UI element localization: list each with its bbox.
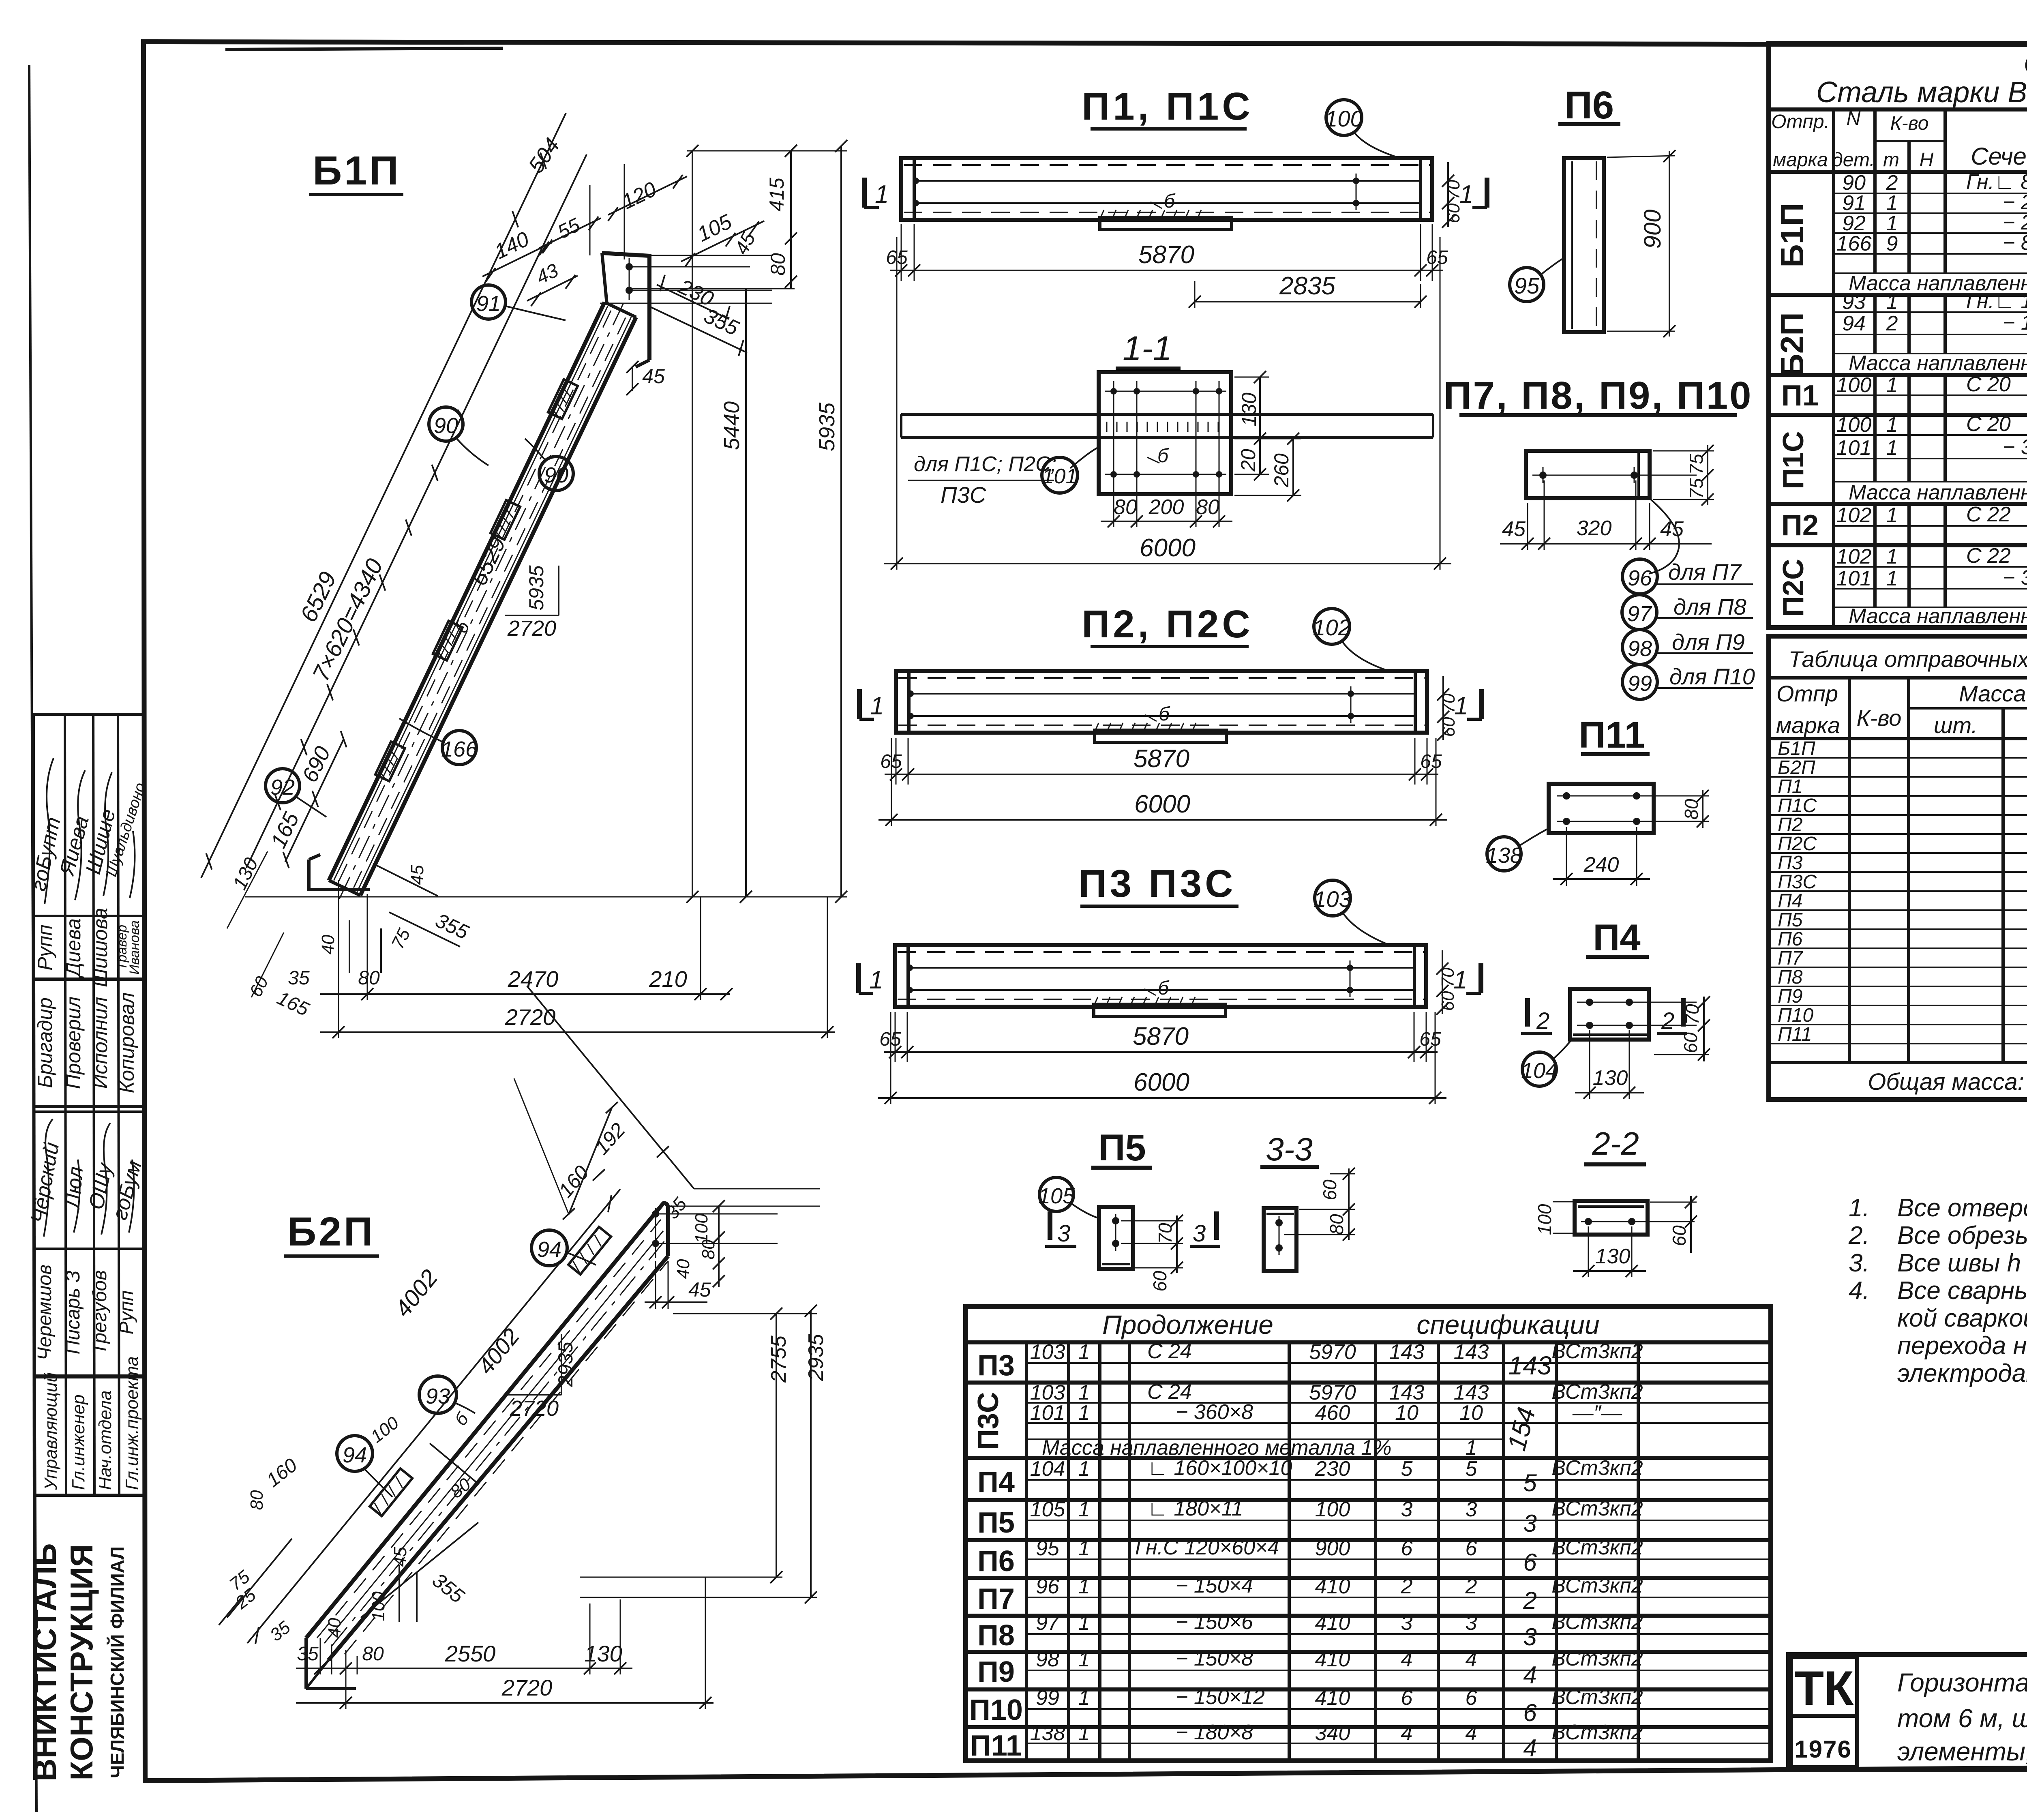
svg-text:166: 166 bbox=[441, 737, 478, 761]
svg-text:П9: П9 bbox=[1778, 986, 1802, 1007]
svg-text:80: 80 bbox=[1196, 495, 1219, 519]
svg-text:2: 2 bbox=[1661, 1008, 1674, 1034]
П1 dimension 6000 bbox=[884, 237, 1451, 570]
svg-text:Отпр: Отпр bbox=[1776, 681, 1838, 706]
svg-text:ВСт3кп2: ВСт3кп2 bbox=[1551, 1456, 1643, 1480]
dim 504 extension bbox=[522, 113, 566, 205]
svg-text:410: 410 bbox=[1315, 1611, 1350, 1635]
svg-text:1976: 1976 bbox=[1794, 1736, 1851, 1763]
svg-text:перехода на ручную сварку, сва: перехода на ручную сварку, сварку произв… bbox=[1897, 1332, 2027, 1360]
svg-text:Общая масса:: Общая масса: bbox=[1868, 1069, 2024, 1095]
callout 103 bbox=[1315, 880, 1350, 916]
svg-text:П6: П6 bbox=[1778, 928, 1803, 950]
svg-text:2755: 2755 bbox=[767, 1335, 791, 1383]
svg-text:ВНИКТИСТАЛЬ: ВНИКТИСТАЛЬ bbox=[27, 1543, 63, 1781]
svg-text:− 180×8: − 180×8 bbox=[2003, 311, 2027, 334]
svg-text:6000: 6000 bbox=[1133, 1068, 1189, 1096]
svg-text:П5: П5 bbox=[1778, 909, 1803, 931]
svg-text:70: 70 bbox=[1438, 967, 1458, 987]
svg-text:ВСт3кп2: ВСт3кп2 bbox=[1551, 1497, 1643, 1520]
svg-text:4.: 4. bbox=[1849, 1277, 1870, 1305]
svg-text:П5: П5 bbox=[1098, 1127, 1146, 1168]
svg-text:260: 260 bbox=[1270, 453, 1293, 488]
section 3-3 bbox=[1260, 1131, 1355, 1271]
svg-text:80: 80 bbox=[767, 253, 789, 276]
svg-text:Диева: Диева bbox=[62, 918, 85, 979]
svg-text:2935: 2935 bbox=[554, 1342, 577, 1387]
Б1П callout 90 right bbox=[525, 439, 573, 491]
svg-text:для П7: для П7 bbox=[1668, 559, 1742, 585]
svg-text:45: 45 bbox=[642, 365, 665, 388]
svg-text:99: 99 bbox=[1036, 1686, 1059, 1710]
svg-text:П3: П3 bbox=[1778, 852, 1803, 874]
svg-text:9: 9 bbox=[1886, 232, 1898, 255]
svg-text:35: 35 bbox=[297, 1643, 319, 1665]
svg-text:101: 101 bbox=[1836, 436, 1872, 460]
long dim 6529 bbox=[201, 205, 522, 878]
svg-text:130: 130 bbox=[1238, 392, 1260, 427]
1-1 bottom dims 80 200 80 bbox=[1101, 487, 1232, 527]
svg-text:91: 91 bbox=[476, 292, 501, 316]
svg-text:138: 138 bbox=[1030, 1721, 1065, 1745]
svg-text:143: 143 bbox=[1454, 1340, 1489, 1364]
member Б2П title bbox=[284, 1209, 379, 1256]
stamp signatures row 1 bbox=[27, 780, 149, 893]
svg-text:143: 143 bbox=[1389, 1340, 1425, 1364]
beam П1 drawing bbox=[901, 158, 1432, 229]
svg-text:80: 80 bbox=[1114, 495, 1137, 519]
Б1П top dimension cluster bbox=[482, 134, 797, 395]
svg-text:96: 96 bbox=[1628, 566, 1652, 590]
svg-text:1: 1 bbox=[1886, 436, 1898, 460]
svg-text:для П8: для П8 bbox=[1673, 594, 1746, 620]
svg-text:65: 65 bbox=[1419, 1029, 1441, 1050]
svg-text:Иванова: Иванова bbox=[127, 920, 142, 975]
svg-text:3: 3 bbox=[1466, 1498, 1477, 1521]
svg-text:С 20: С 20 bbox=[1966, 412, 2011, 436]
svg-text:320: 320 bbox=[1577, 517, 1612, 540]
section 1-1 title bbox=[1116, 329, 1181, 368]
svg-text:ВСт3кп2: ВСт3кп2 bbox=[1551, 1685, 1643, 1709]
svg-text:1: 1 bbox=[1078, 1648, 1090, 1671]
svg-text:N: N bbox=[1847, 108, 1861, 129]
svg-text:94: 94 bbox=[1842, 312, 1866, 335]
svg-text:Управляющий: Управляющий bbox=[41, 1372, 61, 1490]
svg-text:6: 6 bbox=[1466, 1537, 1477, 1560]
svg-text:Все отверстия d = 23.: Все отверстия d = 23. bbox=[1897, 1194, 2027, 1222]
svg-text:2: 2 bbox=[1401, 1575, 1413, 1598]
Б1П callout 92 bbox=[266, 769, 326, 817]
svg-text:70: 70 bbox=[1444, 180, 1463, 199]
svg-text:− 360×8: − 360×8 bbox=[2003, 566, 2027, 590]
svg-text:4: 4 bbox=[1401, 1648, 1413, 1671]
svg-text:ВСт3кп2: ВСт3кп2 bbox=[1551, 1574, 1643, 1597]
svg-text:6: 6 bbox=[1466, 1686, 1477, 1710]
svg-text:Горизонтальные связи, прогоны: Горизонтальные связи, прогоны проле− bbox=[1897, 1668, 2027, 1697]
svg-text:410: 410 bbox=[1315, 1648, 1350, 1671]
svg-text:166: 166 bbox=[1836, 232, 1872, 255]
svg-text:элементы, монтажные прокладки.: элементы, монтажные прокладки. bbox=[1897, 1737, 2027, 1766]
continuation table marks bbox=[969, 1349, 1023, 1762]
svg-text:105: 105 bbox=[1030, 1498, 1066, 1521]
svg-text:100: 100 bbox=[1836, 373, 1872, 397]
для П1С П2С П3С note bbox=[908, 448, 1097, 508]
svg-text:Все сварные швы выполнять полу: Все сварные швы выполнять полуавтоматиче… bbox=[1897, 1277, 2027, 1305]
svg-text:410: 410 bbox=[1315, 1686, 1350, 1710]
svg-text:102: 102 bbox=[1313, 615, 1350, 640]
shipping marks + welds table bbox=[1769, 636, 2027, 1100]
continuation specification table bbox=[966, 1307, 1771, 1761]
Б2П right extension lines 2755 2935 bbox=[580, 1200, 828, 1603]
section flags П2 bbox=[859, 689, 1482, 720]
svg-text:1: 1 bbox=[1078, 1611, 1090, 1635]
part П6 bbox=[1510, 84, 1676, 337]
svg-text:5970: 5970 bbox=[1309, 1340, 1356, 1364]
svg-text:5870: 5870 bbox=[1138, 241, 1194, 269]
svg-text:35: 35 bbox=[288, 967, 310, 989]
svg-text:45: 45 bbox=[1660, 517, 1684, 541]
svg-text:П2: П2 bbox=[1778, 814, 1802, 836]
svg-text:4: 4 bbox=[1466, 1648, 1477, 1671]
svg-text:Нач.отдела: Нач.отдела bbox=[95, 1390, 115, 1490]
П3 dimension 6000 bbox=[878, 1012, 1446, 1104]
svg-text:20: 20 bbox=[1237, 449, 1260, 472]
svg-text:97: 97 bbox=[1627, 602, 1652, 626]
notes block bbox=[1848, 1148, 2027, 1387]
svg-text:марка: марка bbox=[1776, 712, 1840, 738]
title block bbox=[1789, 1655, 2027, 1770]
svg-text:4: 4 bbox=[1466, 1721, 1477, 1745]
svg-text:Сталь марки ВСт3кп2 по ГОСТ 3: Сталь марки ВСт3кп2 по ГОСТ 380-71.* bbox=[1816, 76, 2027, 109]
svg-text:10: 10 bbox=[1459, 1401, 1483, 1425]
svg-text:ВСт3кп2: ВСт3кп2 bbox=[1551, 1380, 1643, 1404]
svg-text:4: 4 bbox=[1523, 1661, 1536, 1689]
svg-text:Исполнил: Исполнил bbox=[89, 997, 111, 1089]
svg-text:1: 1 bbox=[1886, 290, 1898, 314]
svg-text:98: 98 bbox=[1628, 637, 1652, 661]
part П4 bbox=[1521, 917, 1710, 1099]
svg-text:5935: 5935 bbox=[815, 402, 839, 451]
svg-text:1: 1 bbox=[869, 966, 883, 994]
svg-text:ВСт3кп2: ВСт3кп2 bbox=[1551, 1647, 1643, 1670]
svg-text:60: 60 bbox=[1319, 1179, 1340, 1200]
svg-text:ЧЕЛЯБИНСКИЙ ФИЛИАЛ: ЧЕЛЯБИНСКИЙ ФИЛИАЛ bbox=[107, 1546, 128, 1778]
specification title bbox=[1816, 48, 2027, 109]
svg-text:Масса наплавленного металла 1%: Масса наплавленного металла 1% bbox=[1849, 352, 2027, 375]
svg-text:103: 103 bbox=[1313, 886, 1351, 912]
svg-text:П7: П7 bbox=[977, 1583, 1015, 1615]
Б2П callout 93 bbox=[419, 1376, 475, 1413]
section flags П3 bbox=[859, 963, 1481, 994]
svg-text:2: 2 bbox=[1465, 1575, 1477, 1598]
svg-text:1.: 1. bbox=[1849, 1194, 1870, 1222]
svg-text:П4: П4 bbox=[977, 1466, 1015, 1498]
svg-text:80: 80 bbox=[247, 1490, 267, 1510]
svg-text:3: 3 bbox=[1057, 1220, 1070, 1247]
svg-text:75: 75 bbox=[1686, 478, 1707, 499]
svg-text:2: 2 bbox=[1886, 312, 1898, 335]
Б1П callout 90 left bbox=[429, 407, 489, 465]
П1 dimension 2835 bbox=[1189, 272, 1427, 308]
svg-text:кой сваркой в среде углекислог: кой сваркой в среде углекислого газа; в … bbox=[1897, 1304, 2027, 1332]
svg-text:130: 130 bbox=[584, 1641, 622, 1666]
svg-text:Все обрезы 50,: Все обрезы 50, bbox=[1897, 1222, 2027, 1250]
stamp signatures row 2 bbox=[26, 1140, 146, 1225]
svg-text:102: 102 bbox=[1836, 545, 1872, 568]
svg-text:130: 130 bbox=[1595, 1245, 1631, 1268]
svg-text:П6: П6 bbox=[1564, 84, 1614, 127]
svg-text:Продолжение: Продолжение bbox=[1102, 1310, 1273, 1340]
svg-text:210: 210 bbox=[649, 966, 687, 992]
Б2П top dimension cluster bbox=[514, 986, 820, 1279]
svg-text:Сечение: Сечение bbox=[1971, 143, 2027, 170]
svg-text:6000: 6000 bbox=[1140, 534, 1196, 562]
svg-text:П3С: П3С bbox=[1778, 871, 1817, 893]
svg-text:200: 200 bbox=[1148, 495, 1184, 519]
svg-text:П3 П3С: П3 П3С bbox=[1079, 862, 1236, 905]
svg-text:т: т bbox=[1883, 149, 1899, 171]
svg-text:Проверил: Проверил bbox=[62, 997, 85, 1089]
Б2П top end bolts and dims bbox=[645, 1206, 820, 1309]
svg-text:Копировал: Копировал bbox=[116, 993, 138, 1093]
Б1П callout 166 bbox=[399, 718, 478, 765]
svg-text:− 180×8: − 180×8 bbox=[1176, 1721, 1253, 1744]
svg-text:П2С: П2С bbox=[1778, 833, 1817, 855]
svg-text:− 150×12: − 150×12 bbox=[1176, 1685, 1265, 1709]
dim 7x620=4340 bbox=[246, 154, 587, 868]
Б1П callout 91 bbox=[471, 285, 566, 320]
svg-text:− 80×8: − 80×8 bbox=[2003, 231, 2027, 255]
svg-text:80: 80 bbox=[1326, 1214, 1347, 1235]
svg-text:П7: П7 bbox=[1778, 948, 1804, 969]
svg-text:40: 40 bbox=[318, 935, 338, 954]
svg-text:2935: 2935 bbox=[804, 1333, 828, 1381]
svg-text:6000: 6000 bbox=[1134, 790, 1190, 818]
specification table frame bbox=[1769, 43, 2027, 628]
svg-text:40: 40 bbox=[673, 1259, 693, 1279]
marks table headers bbox=[1776, 646, 2027, 741]
svg-text:70: 70 bbox=[1155, 1223, 1176, 1244]
specification header texts bbox=[1771, 108, 2027, 181]
marks table rows bbox=[1778, 738, 2027, 1045]
svg-text:П2С: П2С bbox=[1777, 559, 1810, 617]
svg-text:2835: 2835 bbox=[1279, 272, 1335, 300]
svg-text:900: 900 bbox=[1639, 210, 1666, 249]
svg-text:60: 60 bbox=[1669, 1225, 1690, 1246]
svg-text:С 20: С 20 bbox=[1966, 373, 2011, 396]
svg-text:3-3: 3-3 bbox=[1266, 1131, 1313, 1167]
Б2П slope triangle 2935/2720 bbox=[505, 1334, 577, 1421]
П3 dimension 5870 bbox=[879, 950, 1458, 1062]
svg-text:75: 75 bbox=[1686, 454, 1707, 475]
svg-text:Гн.С 120×60×4: Гн.С 120×60×4 bbox=[1135, 1536, 1279, 1559]
svg-text:95: 95 bbox=[1036, 1537, 1060, 1560]
svg-text:Люл: Люл bbox=[60, 1166, 88, 1211]
svg-text:6: 6 bbox=[1523, 1699, 1537, 1726]
svg-text:2: 2 bbox=[1523, 1587, 1536, 1614]
svg-text:1: 1 bbox=[1886, 504, 1898, 527]
Б1П right extension lines 5440 5935 bbox=[245, 140, 847, 903]
Б1П top hook bbox=[602, 253, 649, 367]
svg-text:5935: 5935 bbox=[525, 565, 548, 610]
svg-text:5: 5 bbox=[1523, 1469, 1537, 1496]
svg-text:230: 230 bbox=[1315, 1457, 1350, 1481]
svg-text:Гл.инж.проекта: Гл.инж.проекта bbox=[122, 1356, 142, 1490]
svg-text:2: 2 bbox=[1536, 1008, 1549, 1034]
svg-text:Б1П: Б1П bbox=[1774, 203, 1810, 268]
svg-text:для П1С; П2С;: для П1С; П2С; bbox=[914, 452, 1056, 476]
svg-text:96: 96 bbox=[1036, 1575, 1059, 1598]
vertical column lines bbox=[1832, 109, 1835, 628]
svg-text:шт.: шт. bbox=[1934, 712, 1978, 738]
svg-text:П2, П2С: П2, П2С bbox=[1082, 602, 1253, 646]
svg-text:1: 1 bbox=[1078, 1340, 1090, 1364]
member Б1П band (rotated) bbox=[176, 101, 703, 943]
svg-text:2.: 2. bbox=[1848, 1222, 1870, 1250]
svg-text:1-1: 1-1 bbox=[1123, 329, 1172, 367]
svg-text:2470: 2470 bbox=[508, 966, 559, 992]
svg-text:60: 60 bbox=[1680, 1032, 1701, 1053]
svg-text:3: 3 bbox=[1401, 1611, 1413, 1635]
svg-text:ВСт3кп2: ВСт3кп2 bbox=[1551, 1536, 1643, 1559]
svg-text:− 150×8: − 150×8 bbox=[1176, 1647, 1253, 1670]
continuation table title bbox=[1102, 1310, 1600, 1340]
svg-text:П3С: П3С bbox=[941, 482, 986, 508]
svg-text:1: 1 bbox=[1886, 373, 1898, 397]
svg-text:143: 143 bbox=[1508, 1351, 1552, 1380]
svg-text:2550: 2550 bbox=[445, 1641, 496, 1666]
svg-text:3: 3 bbox=[1401, 1498, 1413, 1521]
svg-text:Б2П: Б2П bbox=[1778, 757, 1815, 778]
svg-text:100: 100 bbox=[1534, 1204, 1555, 1235]
svg-text:том 6 м, шпальники, соединител: том 6 м, шпальники, соединительные bbox=[1897, 1704, 2027, 1733]
beam П3,П3С title bbox=[1079, 862, 1386, 944]
svg-text:6: 6 bbox=[1401, 1537, 1413, 1560]
svg-text:для П9: для П9 bbox=[1672, 629, 1745, 655]
svg-text:Все швы h = 4,: Все швы h = 4, bbox=[1897, 1249, 2027, 1277]
paper left edge line bbox=[29, 65, 36, 1812]
svg-text:Отпр.: Отпр. bbox=[1771, 111, 1830, 133]
member Б2П band bbox=[306, 1203, 668, 1689]
dim 690 / 165 near bottom bbox=[285, 739, 343, 862]
svg-text:1: 1 bbox=[1078, 1721, 1090, 1745]
spec body rows bbox=[1836, 170, 2027, 628]
svg-text:80: 80 bbox=[362, 1643, 384, 1665]
svg-text:Б1П: Б1П bbox=[313, 148, 401, 193]
svg-text:340: 340 bbox=[1315, 1721, 1350, 1745]
svg-text:45: 45 bbox=[688, 1278, 711, 1301]
svg-text:65: 65 bbox=[1426, 247, 1448, 268]
svg-text:138: 138 bbox=[1486, 843, 1522, 868]
П2 dimension 5870 bbox=[880, 676, 1459, 785]
svg-text:1: 1 bbox=[1078, 1457, 1090, 1481]
svg-text:П9: П9 bbox=[977, 1656, 1015, 1688]
svg-text:95: 95 bbox=[1514, 273, 1540, 298]
svg-text:10: 10 bbox=[1395, 1401, 1418, 1425]
svg-text:П8: П8 bbox=[977, 1619, 1015, 1652]
svg-text:Масса наплавленного метюлла 1%: Масса наплавленного метюлла 1% bbox=[1849, 605, 2027, 628]
svg-text:П4: П4 bbox=[1778, 890, 1802, 912]
svg-text:Трегубов: Трегубов bbox=[89, 1270, 111, 1355]
svg-text:2720: 2720 bbox=[510, 1396, 559, 1421]
svg-text:Гл.инженер: Гл.инженер bbox=[69, 1394, 88, 1490]
svg-text:П8: П8 bbox=[1778, 967, 1803, 988]
svg-text:5870: 5870 bbox=[1133, 1023, 1189, 1050]
svg-text:Рупп: Рупп bbox=[116, 1291, 137, 1335]
marks table footer bbox=[1868, 1069, 2027, 1095]
svg-text:130: 130 bbox=[1593, 1066, 1628, 1090]
svg-text:45: 45 bbox=[390, 1547, 410, 1567]
svg-text:100: 100 bbox=[1315, 1498, 1350, 1521]
svg-text:дет.: дет. bbox=[1832, 149, 1875, 171]
svg-text:∟ 160×100×10: ∟ 160×100×10 bbox=[1147, 1456, 1292, 1480]
svg-text:П10: П10 bbox=[969, 1694, 1023, 1726]
svg-text:93: 93 bbox=[1842, 290, 1866, 314]
Б1П bottom end detail bbox=[309, 855, 370, 890]
svg-text:70: 70 bbox=[1682, 1004, 1703, 1025]
svg-text:60: 60 bbox=[1444, 203, 1463, 223]
svg-text:60: 60 bbox=[1149, 1271, 1170, 1292]
svg-text:98: 98 bbox=[1036, 1648, 1059, 1671]
svg-text:6: 6 bbox=[1401, 1686, 1413, 1710]
svg-text:ВСт3кп2: ВСт3кп2 bbox=[1551, 1340, 1643, 1363]
svg-text:2720: 2720 bbox=[501, 1675, 553, 1700]
svg-text:П1: П1 bbox=[1778, 776, 1802, 797]
svg-text:Масса в кг: Масса в кг bbox=[1959, 681, 2027, 706]
Б2П bottom dimension cluster bbox=[219, 1413, 714, 1709]
svg-text:1: 1 bbox=[870, 692, 884, 720]
svg-text:3: 3 bbox=[1523, 1623, 1536, 1651]
svg-text:П11: П11 bbox=[1778, 1024, 1812, 1045]
svg-text:П1С: П1С bbox=[1778, 795, 1817, 817]
Б2П dim 4002 outer bbox=[247, 1189, 620, 1644]
svg-text:∟ 180×11: ∟ 180×11 bbox=[1147, 1497, 1243, 1520]
svg-text:− 150×6: − 150×6 bbox=[1176, 1610, 1253, 1634]
svg-text:5440: 5440 bbox=[720, 401, 744, 450]
1-1 right dims 130 20 260 bbox=[1234, 377, 1269, 378]
svg-text:− 150×4: − 150×4 bbox=[1176, 1574, 1253, 1597]
svg-text:94: 94 bbox=[537, 1237, 561, 1262]
svg-text:Б1П: Б1П bbox=[1778, 738, 1815, 759]
svg-text:П5: П5 bbox=[977, 1507, 1015, 1539]
svg-text:П11: П11 bbox=[970, 1730, 1022, 1762]
svg-text:Таблица отправочных марок: Таблица отправочных марок bbox=[1789, 646, 2027, 672]
svg-text:104: 104 bbox=[1030, 1457, 1065, 1481]
svg-text:5: 5 bbox=[1401, 1457, 1413, 1481]
beam П2 drawing bbox=[896, 671, 1427, 742]
svg-text:99: 99 bbox=[1628, 671, 1652, 696]
svg-text:С 24: С 24 bbox=[1147, 1340, 1192, 1363]
Б2П callout 94 bottom bbox=[337, 1436, 392, 1497]
svg-text:101: 101 bbox=[1030, 1401, 1065, 1425]
part П5 bbox=[1038, 1127, 1220, 1292]
svg-text:1: 1 bbox=[1078, 1575, 1090, 1598]
Б1П bottom dimension cluster bbox=[227, 851, 835, 1038]
svg-text:Писарь З: Писарь З bbox=[62, 1271, 84, 1355]
svg-text:1: 1 bbox=[1886, 567, 1898, 590]
beam П3 drawing bbox=[895, 945, 1426, 1016]
svg-text:марка: марка bbox=[1773, 149, 1828, 171]
part П7 П8 П9 П10 bbox=[1444, 374, 1755, 699]
svg-text:спецификации: спецификации bbox=[1416, 1310, 1599, 1340]
stamp column grid bbox=[33, 714, 144, 1780]
svg-text:105: 105 bbox=[1038, 1184, 1075, 1208]
svg-text:3: 3 bbox=[1523, 1510, 1536, 1537]
part П11 bbox=[1486, 714, 1709, 886]
svg-text:1: 1 bbox=[1078, 1498, 1090, 1521]
svg-text:1: 1 bbox=[1886, 413, 1898, 437]
svg-text:60: 60 bbox=[1439, 717, 1459, 737]
